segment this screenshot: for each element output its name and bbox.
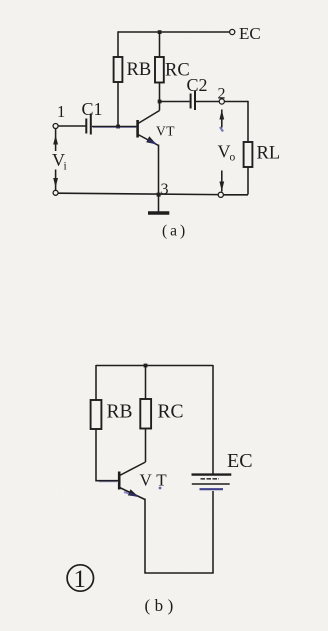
svg-text:o: o <box>230 152 236 164</box>
transistor VT (a) <box>138 102 160 195</box>
wire top rail (a) <box>118 31 230 33</box>
svg-text:RB: RB <box>107 402 133 423</box>
wire C2 to node 2 <box>196 101 219 103</box>
node junction top rail / RC <box>158 30 162 34</box>
voltage arrow Vo up <box>219 110 224 128</box>
resistor RL <box>244 142 253 167</box>
voltage arrow Vi down <box>53 170 58 191</box>
svg-text:3: 3 <box>161 181 169 198</box>
terminal EC (a) <box>230 29 235 34</box>
terminal node 2 <box>219 99 224 104</box>
capacitor C1 <box>86 114 91 135</box>
resistor RC (b) <box>140 399 151 429</box>
node junction 3 <box>157 193 161 197</box>
svg-text:C1: C1 <box>82 99 103 119</box>
terminal input top <box>53 124 58 129</box>
wire bottom rail (a) right <box>223 194 248 196</box>
wire input to C1 <box>58 125 85 127</box>
ink smudge base wire (b) <box>99 481 117 483</box>
svg-text:1: 1 <box>74 566 87 593</box>
resistor RB (b) <box>91 400 102 429</box>
ink smudge under VT label (b) <box>159 487 162 490</box>
svg-text:RL: RL <box>257 144 281 164</box>
wire RC bottom (b) <box>145 429 147 463</box>
svg-text:EC: EC <box>239 24 261 43</box>
node junction top rail (b) <box>144 364 148 368</box>
wire RL branch top <box>247 101 249 142</box>
terminal bottom rail <box>218 192 223 197</box>
wire RB top <box>117 31 119 57</box>
wire bottom rail (b) <box>144 572 213 574</box>
wire top rail (b) <box>96 365 213 367</box>
node junction base / RB <box>116 125 120 129</box>
wire RB bottom <box>117 82 119 127</box>
label circled 1 <box>67 565 93 593</box>
ink smudge base wire (a) <box>93 127 136 129</box>
svg-text:RB: RB <box>127 60 152 80</box>
wire node 2 to RL branch <box>224 101 248 103</box>
resistor RB (a) <box>114 57 123 82</box>
ground <box>148 195 169 214</box>
voltage arrow Vo down <box>219 171 224 192</box>
transistor VT (b) <box>119 462 145 573</box>
ink smudge Vo arrow (a) <box>220 127 223 132</box>
wire RC top <box>159 32 161 57</box>
wire RB bottom to base corner (b) <box>96 429 119 481</box>
terminal input bottom <box>53 190 58 195</box>
wire RL branch bottom <box>247 167 249 195</box>
svg-text:RC: RC <box>158 402 184 423</box>
wire right branch bottom (b) <box>212 491 214 573</box>
wire right branch top (b) <box>212 365 214 474</box>
resistor RC (a) <box>155 57 164 83</box>
wire RC top (b) <box>145 366 147 400</box>
svg-text:1: 1 <box>57 102 65 121</box>
svg-text:VT: VT <box>156 124 175 139</box>
svg-text:EC: EC <box>227 450 253 472</box>
svg-text:(b): (b) <box>145 596 178 615</box>
svg-text:VT: VT <box>140 471 172 490</box>
wire collector to C2 <box>160 101 190 103</box>
voltage arrow Vi up <box>53 129 58 152</box>
wire C1 to base <box>92 126 137 128</box>
svg-text:i: i <box>64 161 67 173</box>
svg-text:(a): (a) <box>162 223 188 240</box>
wire RC bottom <box>159 83 161 102</box>
battery EC (b) <box>192 475 232 490</box>
node junction collector <box>158 100 162 104</box>
wire bottom rail (a) left <box>58 193 218 194</box>
ink smudge emitter arrow (b) <box>124 492 137 496</box>
svg-text:C2: C2 <box>187 75 208 95</box>
ink smudge emitter arrow (a) <box>148 140 156 144</box>
capacitor C2 <box>191 91 195 110</box>
wire RB top (b) <box>95 365 97 400</box>
